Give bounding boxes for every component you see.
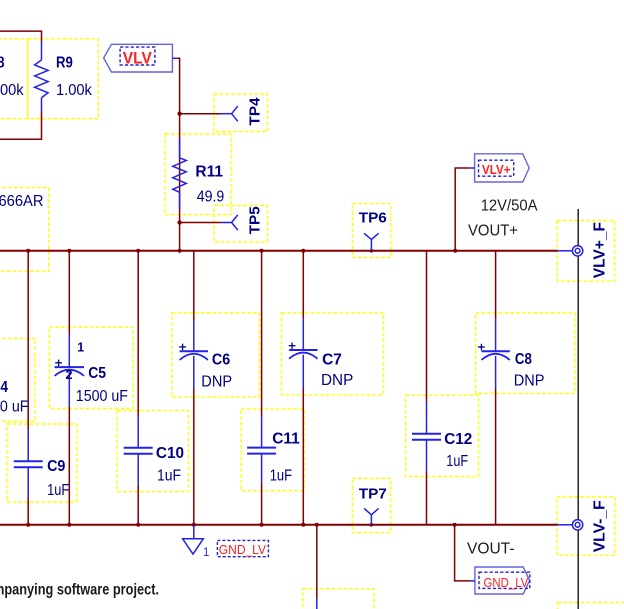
svg-text:DNP: DNP: [321, 372, 353, 389]
junction top bus at VLV column: [178, 249, 182, 253]
capacitor C5 plus sign: [55, 360, 62, 366]
junction bottom bus at C11: [260, 523, 264, 527]
svg-text:1uF: 1uF: [270, 467, 292, 484]
wire VOUT- bottom bus: [0, 524, 558, 526]
wire C11 column: [261, 251, 263, 417]
junction TP4 stub: [177, 112, 181, 116]
wire C9 column: [27, 251, 29, 429]
net label rect VLV: [120, 47, 155, 65]
resistor R9: [35, 42, 49, 111]
junction top bus at C9: [26, 249, 30, 253]
compile-mask box VLV+_F: [557, 221, 614, 282]
compile-mask box C9: [7, 424, 77, 502]
svg-text:R8: R8: [0, 54, 5, 71]
junction bottom bus at GND stem: [192, 523, 196, 527]
svg-text:TP6: TP6: [359, 209, 387, 226]
svg-text:C9: C9: [47, 458, 65, 475]
test point TP6: [364, 233, 379, 251]
svg-text:1uF: 1uF: [157, 467, 181, 484]
compile-mask box TP4: [214, 94, 268, 132]
compile-mask box C10: [117, 411, 189, 492]
capacitor C8 plus sign: [478, 344, 485, 350]
test point TP5: [221, 215, 238, 230]
capacitor C11 (1uF): [247, 417, 276, 483]
compile-mask box VLV-_F: [557, 497, 615, 555]
wire VLV+ branch: [455, 168, 470, 251]
svg-text:mpanying software project.: mpanying software project.: [0, 582, 159, 599]
svg-text:12V/50A: 12V/50A: [481, 198, 538, 215]
port VLV+: [475, 154, 530, 182]
connector VLV+_F pin: [558, 250, 573, 252]
wire TP4 stub: [180, 113, 221, 115]
wire C6 column: [193, 251, 195, 320]
capacitor C9 (1uF): [14, 429, 43, 497]
wire R8 loop top: [0, 31, 42, 42]
junction bottom bus at C10: [136, 523, 140, 527]
svg-text:R9: R9: [56, 54, 73, 71]
svg-text:1: 1: [77, 340, 84, 354]
wire C12 column: [426, 251, 428, 402]
svg-text:1.00k: 1.00k: [56, 82, 92, 99]
svg-text:C6: C6: [212, 351, 230, 368]
compile-mask box C11: [241, 409, 304, 491]
svg-text:TP4: TP4: [247, 97, 264, 126]
svg-text:VLV-_F: VLV-_F: [592, 500, 609, 552]
svg-text:C10: C10: [156, 445, 184, 462]
svg-text:C7: C7: [322, 352, 342, 369]
compile-mask box bottom-right component: [558, 603, 624, 609]
bottom component lead: [316, 598, 318, 609]
capacitor C7 (polarized DNP): [289, 319, 317, 389]
junction bottom bus at C7: [301, 523, 305, 527]
junction top bus at C5: [67, 249, 71, 253]
compile-mask box TP6: [352, 204, 391, 258]
ground GND_LV symbol: [183, 525, 204, 554]
test point TP4: [221, 106, 238, 121]
junction bottom bus at TP7: [370, 523, 374, 527]
junction top bus at VLV+ branch: [453, 249, 457, 253]
net label rect VLV+: [479, 160, 514, 176]
capacitor C8 (polarized DNP): [481, 319, 509, 388]
test point TP7: [364, 508, 379, 524]
svg-text:VOUT-: VOUT-: [467, 541, 515, 558]
compile-mask box C7: [282, 313, 384, 395]
junction top bus at TP6: [370, 249, 374, 253]
compile-mask box C12: [406, 395, 479, 476]
svg-text:1.00k: 1.00k: [0, 82, 24, 99]
junction top bus at C11: [260, 249, 264, 253]
connector VLV+_F double circle: [572, 246, 582, 256]
svg-text:666AR: 666AR: [0, 193, 44, 210]
port VLV+ pin stub: [470, 167, 475, 169]
svg-text:GND_LV: GND_LV: [484, 575, 529, 590]
compile-mask box R11: [165, 134, 231, 215]
svg-text:C11: C11: [272, 430, 300, 447]
junction top bus at C7: [301, 249, 305, 253]
compile-mask box C5: [49, 327, 133, 408]
resistor R11: [173, 138, 187, 208]
compile-mask box bottom component: [303, 589, 374, 609]
wire bottom branch at x=316.8: [316, 525, 318, 599]
svg-text:TP7: TP7: [359, 486, 387, 503]
svg-text:C5: C5: [88, 365, 106, 382]
compile-mask box TP7: [352, 478, 390, 532]
svg-text:1: 1: [203, 547, 209, 559]
svg-text:C8: C8: [515, 351, 532, 368]
port VLV: [104, 44, 173, 72]
svg-text:DNP: DNP: [201, 374, 232, 391]
wire VOUT+ top bus: [0, 250, 558, 252]
svg-text:C4: C4: [0, 379, 8, 396]
connector VLV-_F double circle: [572, 520, 582, 530]
svg-text:VOUT+: VOUT+: [468, 223, 518, 240]
svg-text:VLV+: VLV+: [482, 162, 511, 177]
port GND_LV: [475, 567, 530, 594]
junction bottom bus at C9: [26, 523, 30, 527]
compile-mask box R8: [0, 39, 28, 119]
capacitor C7 plus sign: [289, 343, 296, 349]
wire R8 loop bottom: [0, 111, 42, 139]
junction top bus at C10: [136, 249, 140, 253]
wire C7 column: [302, 251, 304, 319]
svg-text:GND_LV: GND_LV: [219, 542, 266, 557]
compile-mask box C4: [0, 338, 35, 421]
port GND_LV pin stub: [470, 580, 475, 582]
compile-mask box TP5: [214, 206, 268, 243]
svg-text:1500 uF: 1500 uF: [76, 388, 128, 405]
svg-text:VLV: VLV: [123, 49, 153, 68]
svg-text:1uF: 1uF: [446, 453, 468, 470]
capacitor C12 (1uF): [412, 402, 441, 471]
svg-text:100 uF: 100 uF: [0, 399, 29, 416]
connector VLV-_F pin: [558, 524, 573, 526]
capacitor C6 plus sign: [179, 344, 186, 350]
compile-mask box C6: [172, 313, 260, 397]
compile-mask box U (666AR): [0, 188, 49, 272]
junction TP5 stub: [177, 220, 181, 224]
wire GND_LV branch: [455, 525, 470, 581]
wire C10 column: [137, 251, 139, 417]
svg-text:C12: C12: [444, 431, 472, 448]
wire VLV net vertical: [177, 58, 180, 251]
compile-mask box C8: [476, 313, 575, 393]
junction bottom bus at C5: [67, 523, 71, 527]
svg-text:TP5: TP5: [247, 206, 264, 234]
capacitor C6 (polarized DNP): [180, 320, 208, 389]
svg-text:1uF: 1uF: [47, 482, 69, 499]
off-sheet black line: [577, 209, 579, 609]
net label rect GND_LV: [217, 540, 268, 556]
svg-text:49.9: 49.9: [197, 189, 225, 206]
compile-mask box R9: [28, 39, 99, 119]
junction bottom bus at GND_LV branch: [453, 523, 457, 527]
svg-text:VLV+_F: VLV+_F: [592, 222, 609, 279]
capacitor C5 (polarized 1500uF): [55, 334, 84, 406]
capacitor C10 (1uF): [124, 417, 153, 485]
junction bottom bus at x=316.8: [315, 523, 319, 527]
svg-text:R11: R11: [195, 164, 223, 181]
wire TP5 stub: [180, 222, 221, 224]
svg-text:2: 2: [66, 368, 73, 382]
port VLV pin stub: [172, 57, 176, 59]
wire C5 column: [68, 251, 70, 334]
wire C8 column: [495, 251, 497, 319]
net label rect GND_LV port: [479, 572, 530, 588]
svg-text:DNP: DNP: [514, 373, 545, 390]
